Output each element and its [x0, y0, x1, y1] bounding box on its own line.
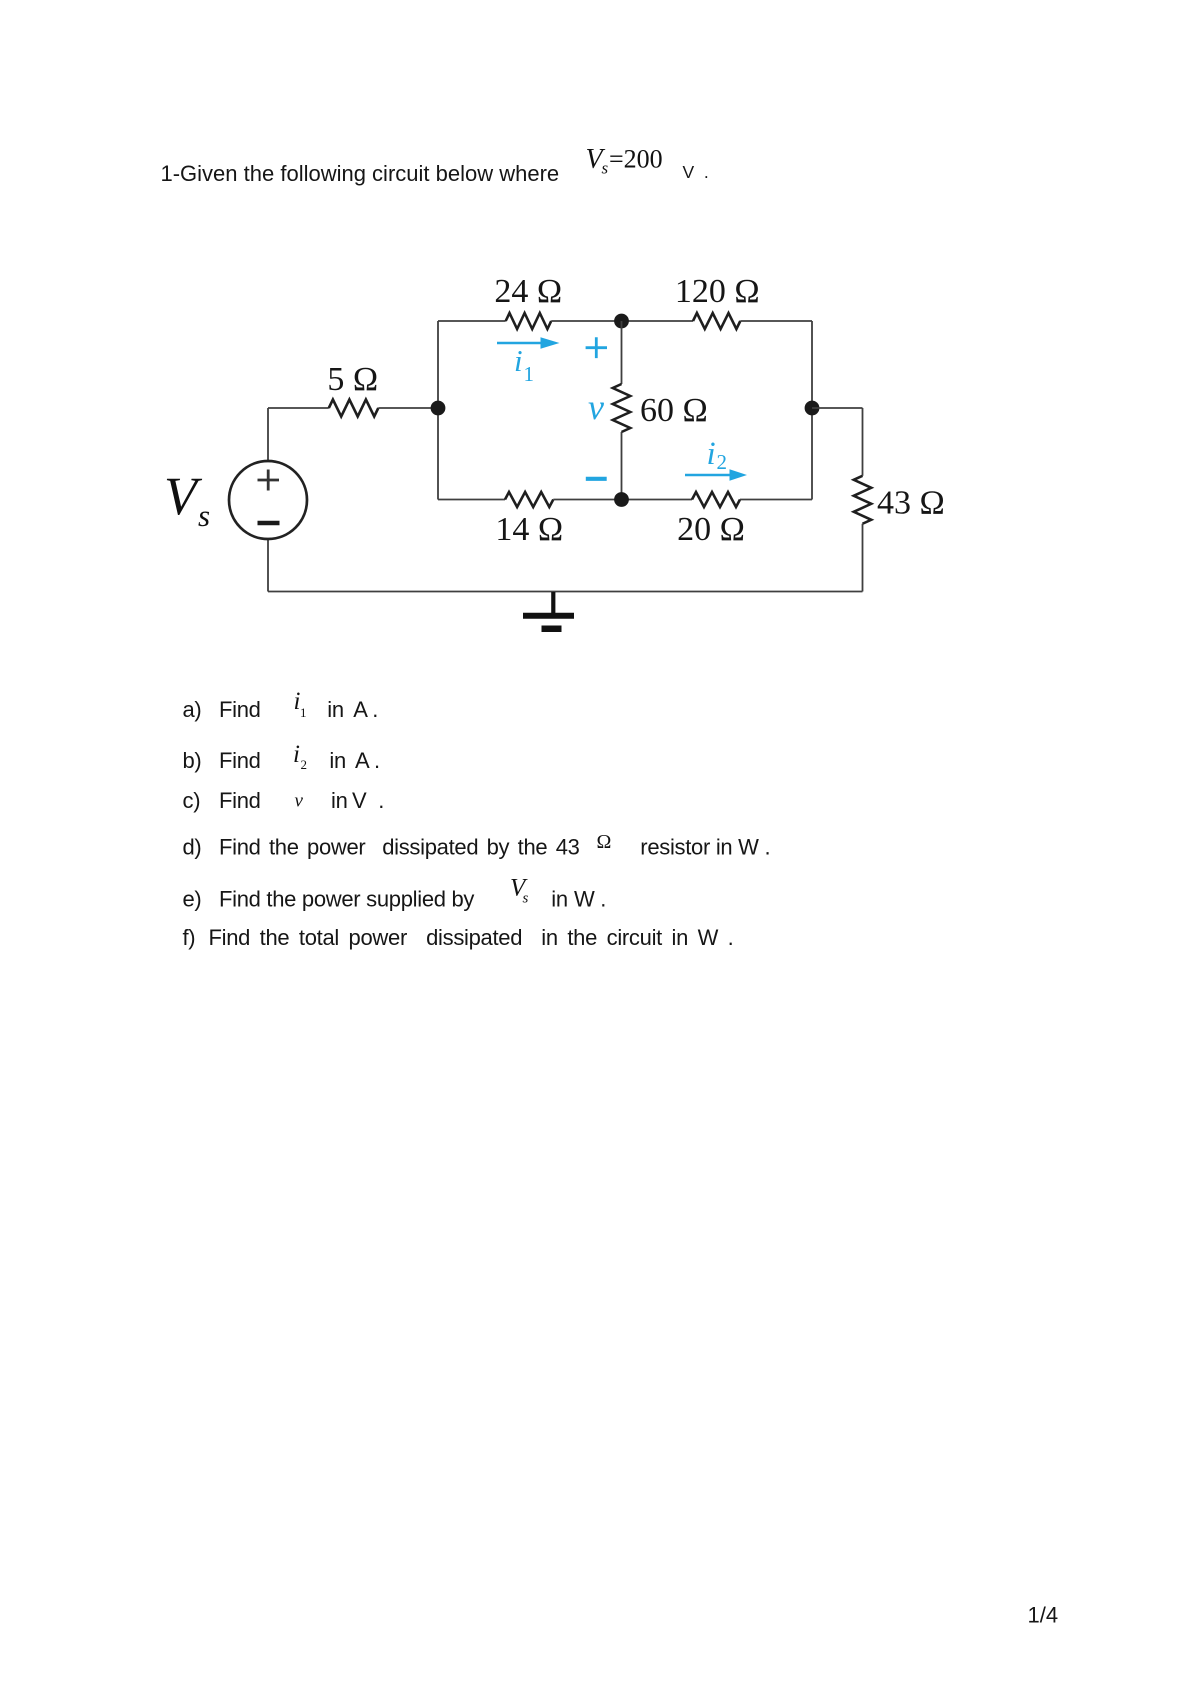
plus sign v polarity — [586, 337, 607, 358]
svg-text:v: v — [588, 387, 604, 427]
svg-text:Find: Find — [219, 788, 261, 813]
resistor R 24 ohm zigzag — [506, 313, 552, 329]
label i2 cyan — [707, 436, 728, 474]
minus sign inside source — [258, 521, 280, 525]
math Vs=200 — [586, 144, 663, 178]
svg-text:V .: V . — [683, 162, 709, 182]
question c — [183, 788, 385, 813]
svg-text:i: i — [514, 343, 523, 378]
wire: left rail bottom (source to bottom rail) — [267, 539, 269, 592]
math i1 inline — [294, 688, 307, 720]
svg-text:A .: A . — [355, 748, 380, 773]
svg-text:in: in — [331, 788, 348, 813]
node B junction dot — [805, 401, 820, 416]
svg-text:=200: =200 — [609, 145, 663, 174]
wire: top wire middle segment — [551, 320, 693, 322]
svg-text:20 Ω: 20 Ω — [677, 511, 745, 548]
svg-text:in: in — [551, 887, 568, 912]
svg-text:in: in — [329, 748, 346, 773]
svg-text:s: s — [602, 159, 609, 178]
question d — [183, 835, 771, 860]
voltage source Vs circle — [229, 461, 307, 539]
svg-text:resistor in W .: resistor in W . — [640, 835, 770, 860]
svg-text:c): c) — [183, 788, 201, 813]
question e — [183, 887, 607, 912]
resistor R 14 ohm zigzag — [505, 492, 553, 507]
svg-text:a): a) — [183, 697, 202, 722]
svg-text:Find the power dissipated by: Find the power dissipated by the 43 — [219, 835, 580, 860]
wire: 43-ohm branch top stub — [862, 408, 864, 476]
math Vs inline — [510, 875, 529, 907]
question b — [183, 748, 380, 773]
svg-text:43 Ω: 43 Ω — [877, 485, 945, 522]
svg-text:in: in — [327, 697, 344, 722]
wire: 43-ohm branch bottom stub — [862, 524, 864, 592]
wire: left rail top (source to 5-ohm level) — [267, 408, 269, 461]
svg-text:120 Ω: 120 Ω — [675, 273, 760, 310]
svg-text:s: s — [523, 891, 529, 907]
wire: right vertical (top wire down to bottom-middle wire) — [811, 321, 813, 500]
svg-text:2: 2 — [717, 450, 728, 474]
math i2 inline — [293, 741, 307, 772]
node C junction dot — [614, 492, 629, 507]
wire: top wire right segment — [740, 320, 812, 322]
wire: 60-ohm branch bottom stub — [621, 432, 623, 500]
resistor R 43 ohm vertical zigzag — [854, 476, 872, 524]
svg-text:Find: Find — [219, 697, 261, 722]
wire: bottom rail — [268, 591, 863, 593]
wire: middle-left horizontal to 5-ohm — [268, 407, 329, 409]
label i1 cyan — [514, 343, 534, 386]
svg-text:v: v — [295, 791, 304, 812]
current arrow i2 — [685, 469, 747, 481]
svg-text:W .: W . — [574, 887, 606, 912]
wire: 60-ohm branch top stub — [621, 321, 623, 384]
svg-text:Ω: Ω — [597, 831, 612, 853]
node D junction dot — [431, 401, 446, 416]
resistor R 20 ohm zigzag — [692, 492, 740, 507]
wire: top wire left segment — [438, 320, 506, 322]
svg-text:Find: Find — [219, 748, 261, 773]
svg-text:24 Ω: 24 Ω — [494, 273, 562, 310]
svg-text:d): d) — [183, 835, 202, 860]
plus sign inside source — [258, 470, 280, 491]
question f — [183, 925, 734, 950]
current arrow i1 — [497, 337, 560, 349]
svg-text:A .: A . — [353, 697, 378, 722]
svg-text:i: i — [293, 741, 300, 768]
svg-text:.: . — [378, 788, 384, 813]
svg-text:V: V — [352, 788, 367, 813]
svg-text:60 Ω: 60 Ω — [640, 392, 708, 429]
svg-text:1: 1 — [524, 362, 535, 386]
svg-text:1-Given the following circuit: 1-Given the following circuit below wher… — [161, 161, 560, 186]
wire: bottom-middle wire left segment — [438, 499, 505, 501]
svg-text:s: s — [198, 498, 210, 533]
minus sign v polarity — [586, 477, 607, 481]
label Vs source — [164, 466, 210, 533]
wire: bottom-middle wire right segment — [740, 499, 812, 501]
svg-text:e): e) — [183, 887, 202, 912]
question a — [183, 697, 379, 722]
resistor R 120 ohm zigzag — [693, 313, 740, 329]
svg-text:1/4: 1/4 — [1028, 1603, 1059, 1628]
svg-text:f): f) — [183, 925, 196, 950]
svg-text:Find the total power dissipat: Find the total power dissipated in the c… — [209, 925, 734, 950]
ground symbol — [523, 592, 574, 629]
wire: bottom-middle wire center segment — [553, 499, 692, 501]
wire: node B to 43-ohm branch — [812, 407, 863, 409]
wire: node D vertical branch — [437, 321, 439, 500]
resistor R 5 ohm zigzag — [329, 400, 379, 417]
svg-text:b): b) — [183, 748, 202, 773]
svg-text:1: 1 — [300, 705, 307, 720]
node A junction dot — [614, 314, 629, 329]
wire: 5-ohm to node D — [378, 407, 438, 409]
svg-text:2: 2 — [301, 757, 308, 772]
svg-text:5 Ω: 5 Ω — [327, 361, 378, 398]
svg-text:i: i — [707, 436, 716, 472]
resistor R 60 ohm vertical zigzag — [613, 384, 631, 432]
svg-text:Find the power supplied by: Find the power supplied by — [219, 887, 474, 912]
svg-text:14 Ω: 14 Ω — [495, 511, 563, 548]
